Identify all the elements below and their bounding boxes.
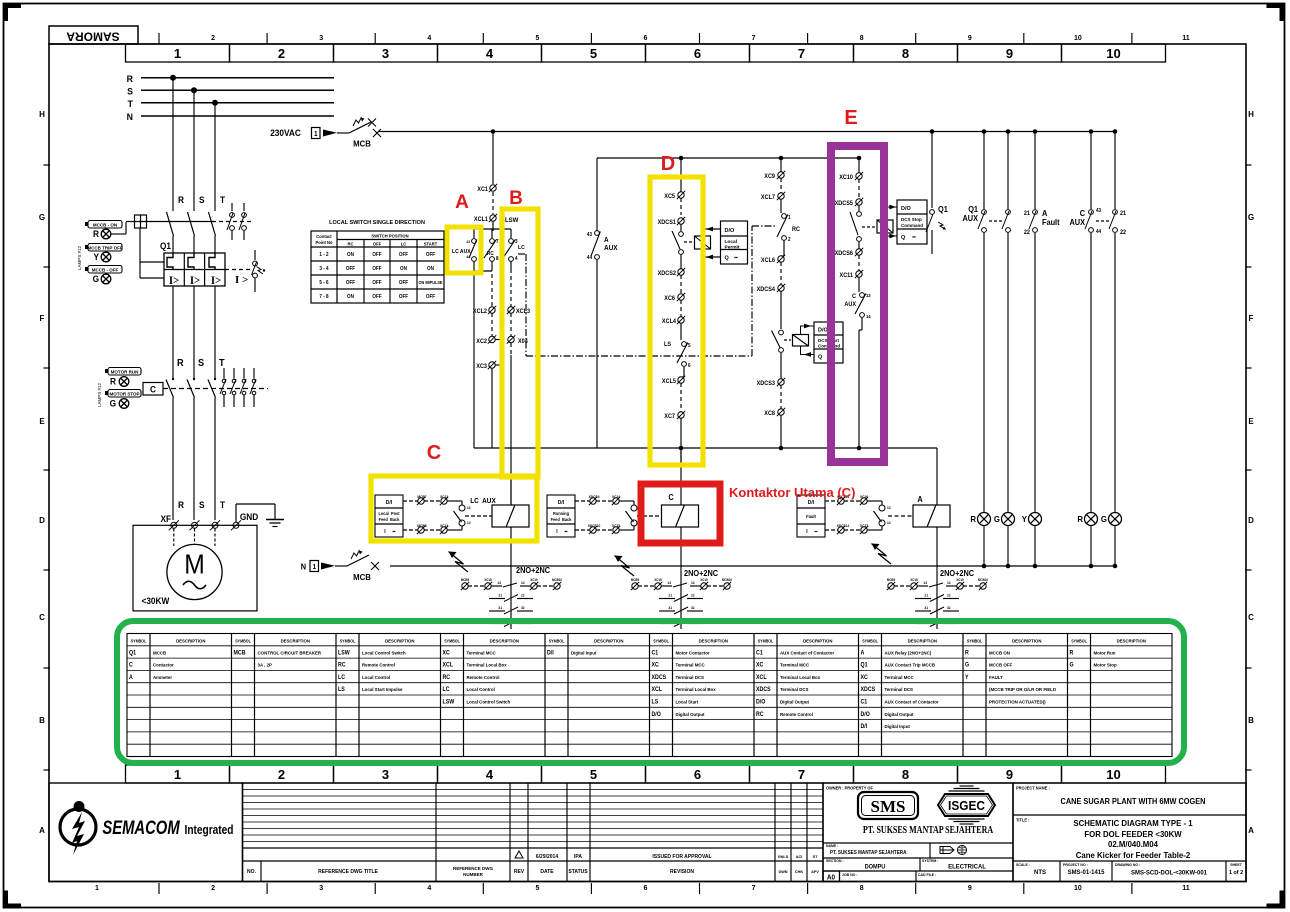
- svg-text:I>: I>: [169, 275, 179, 288]
- svg-text:E: E: [844, 107, 857, 129]
- svg-text:A: A: [1248, 826, 1254, 835]
- svg-text:PT. SUKSES MANTAP SEJAHTERA: PT. SUKSES MANTAP SEJAHTERA: [830, 850, 907, 856]
- svg-text:2NO+2NC: 2NO+2NC: [516, 566, 551, 575]
- svg-text:Local: Local: [725, 239, 738, 245]
- svg-text:D/I: D/I: [808, 500, 815, 506]
- svg-text:T: T: [220, 500, 226, 510]
- svg-text:6: 6: [694, 46, 701, 61]
- svg-text:Terminal MCC: Terminal MCC: [780, 663, 810, 668]
- svg-text:A: A: [39, 826, 45, 835]
- svg-text:S: S: [198, 358, 205, 369]
- svg-text:Digital Output: Digital Output: [885, 712, 915, 717]
- svg-text:B: B: [509, 188, 523, 209]
- svg-text:MCCB: MCCB: [153, 650, 166, 655]
- svg-text:XC8: XC8: [764, 411, 775, 417]
- svg-text:LSW: LSW: [505, 217, 518, 224]
- svg-text:DESCRIPTION: DESCRIPTION: [803, 639, 832, 644]
- svg-text:OFF: OFF: [399, 294, 408, 300]
- svg-text:STATUS: STATUS: [568, 869, 588, 875]
- svg-text:SMS-01-1415: SMS-01-1415: [1068, 869, 1105, 876]
- svg-text:MCCB OFF: MCCB OFF: [989, 663, 1012, 668]
- svg-text:Local Start Impulse: Local Start Impulse: [362, 687, 403, 692]
- svg-text:NO.: NO.: [247, 869, 257, 875]
- svg-text:DESCRIPTION: DESCRIPTION: [908, 639, 937, 644]
- svg-text:DESCRIPTION: DESCRIPTION: [490, 639, 519, 644]
- svg-text:D/O: D/O: [725, 228, 736, 234]
- svg-text:9: 9: [1006, 46, 1013, 61]
- svg-text:N: N: [301, 562, 307, 571]
- svg-text:SEMACOM: SEMACOM: [102, 817, 180, 838]
- svg-text:I >: I >: [235, 274, 248, 286]
- svg-text:Local Control Switch: Local Control Switch: [467, 700, 511, 705]
- svg-text:1 of 2: 1 of 2: [1229, 870, 1243, 876]
- svg-text:SWITCH POSITION: SWITCH POSITION: [371, 233, 408, 238]
- svg-text:ON: ON: [427, 266, 434, 272]
- svg-text:XCL: XCL: [652, 687, 663, 693]
- svg-text:SYMBOL: SYMBOL: [1071, 638, 1087, 643]
- svg-text:21: 21: [668, 593, 672, 597]
- svg-text:Local Control: Local Control: [467, 687, 495, 692]
- svg-text:S: S: [127, 86, 133, 96]
- svg-text:Remote Control: Remote Control: [362, 663, 395, 668]
- svg-text:XC3: XC3: [476, 364, 487, 370]
- svg-text:Fault: Fault: [806, 514, 816, 519]
- svg-text:8: 8: [860, 885, 864, 892]
- svg-text:LSW: LSW: [338, 650, 350, 656]
- svg-text:S: S: [199, 500, 205, 510]
- svg-text:T: T: [220, 195, 226, 205]
- svg-text:Fault: Fault: [1042, 218, 1060, 227]
- svg-text:IPA: IPA: [574, 854, 582, 860]
- svg-text:APV: APV: [811, 870, 819, 874]
- svg-text:02.M/040.M04: 02.M/040.M04: [1108, 840, 1158, 849]
- svg-text:1: 1: [174, 46, 181, 61]
- svg-text:LS: LS: [664, 342, 671, 348]
- svg-text:OFF: OFF: [399, 252, 408, 258]
- svg-text:T: T: [128, 98, 134, 108]
- svg-text:7: 7: [752, 885, 756, 892]
- svg-text:XC19: XC19: [700, 578, 708, 582]
- svg-text:E: E: [39, 417, 45, 426]
- svg-text:⎓: ⎓: [393, 530, 397, 534]
- svg-text:G: G: [965, 662, 970, 668]
- svg-text:Local Post: Local Post: [378, 511, 400, 516]
- svg-text:R: R: [178, 500, 185, 510]
- svg-text:PROJECT NAME :: PROJECT NAME :: [1016, 785, 1050, 790]
- svg-text:XC10: XC10: [839, 175, 853, 181]
- svg-text:Feed Back: Feed Back: [551, 517, 573, 522]
- svg-text:22: 22: [691, 593, 695, 597]
- svg-text:MCB: MCB: [234, 650, 246, 656]
- svg-text:TITLE :: TITLE :: [1016, 817, 1029, 822]
- svg-text:5: 5: [535, 35, 539, 42]
- svg-text:LS: LS: [338, 687, 345, 693]
- svg-text:XCL4: XCL4: [662, 319, 677, 325]
- svg-text:XC9: XC9: [764, 174, 775, 180]
- svg-text:DESCRIPTION: DESCRIPTION: [1117, 639, 1146, 644]
- svg-text:MCCB - OFF: MCCB - OFF: [92, 268, 119, 273]
- svg-text:Digital Output: Digital Output: [676, 712, 706, 717]
- svg-text:XC: XC: [443, 650, 450, 656]
- svg-text:Contact: Contact: [316, 234, 332, 239]
- svg-text:D/I: D/I: [861, 724, 868, 730]
- svg-text:LC AUX: LC AUX: [452, 249, 471, 255]
- svg-text:31: 31: [924, 606, 928, 610]
- svg-text:7: 7: [496, 239, 499, 245]
- svg-text:1: 1: [313, 564, 317, 571]
- svg-text:XC18: XC18: [910, 578, 918, 582]
- svg-text:XDCS: XDCS: [861, 687, 876, 693]
- svg-text:SAMORA: SAMORA: [66, 30, 120, 44]
- svg-text:SYMBOL: SYMBOL: [653, 638, 669, 643]
- svg-text:RC: RC: [792, 227, 800, 233]
- svg-text:7: 7: [752, 35, 756, 42]
- svg-text:LS: LS: [652, 699, 659, 705]
- svg-text:2NO+2NC: 2NO+2NC: [684, 569, 719, 578]
- svg-text:Motor Run: Motor Run: [1094, 650, 1116, 655]
- svg-text:LC: LC: [443, 687, 450, 693]
- svg-text:4: 4: [486, 767, 494, 782]
- svg-text:RC: RC: [756, 711, 764, 717]
- svg-text:AUX Contact Trip MCCB: AUX Contact Trip MCCB: [885, 663, 936, 668]
- svg-text:AUX: AUX: [604, 245, 618, 252]
- svg-text:E: E: [1248, 417, 1254, 426]
- svg-text:PROJECT NO :: PROJECT NO :: [1063, 863, 1088, 867]
- svg-text:⎓: ⎓: [565, 530, 569, 534]
- svg-text:14: 14: [691, 581, 695, 585]
- svg-text:C: C: [1080, 209, 1086, 218]
- svg-text:1: 1: [788, 215, 791, 221]
- svg-text:SYMBOL: SYMBOL: [340, 638, 356, 643]
- svg-text:3: 3: [319, 885, 323, 892]
- svg-text:C1: C1: [756, 650, 763, 656]
- svg-text:MCB8: MCB8: [417, 524, 426, 528]
- svg-text:Y: Y: [1022, 515, 1028, 524]
- svg-text:3A , 2P: 3A , 2P: [258, 663, 273, 668]
- svg-text:XDCS2: XDCS2: [658, 271, 676, 277]
- svg-text:MOTOR RUN: MOTOR RUN: [111, 370, 139, 375]
- svg-text:Terminal MCC: Terminal MCC: [467, 650, 497, 655]
- svg-text:NAME :: NAME :: [826, 844, 838, 848]
- svg-text:ELECTRICAL: ELECTRICAL: [948, 863, 986, 870]
- svg-text:5: 5: [590, 767, 597, 782]
- svg-text:XDCS6: XDCS6: [835, 251, 853, 257]
- svg-text:⎓: ⎓: [912, 234, 916, 239]
- svg-text:G: G: [110, 398, 117, 408]
- svg-text:5: 5: [590, 46, 597, 61]
- svg-text:A: A: [1042, 209, 1048, 218]
- svg-text:R: R: [970, 515, 976, 524]
- svg-text:NUMBER: NUMBER: [463, 872, 483, 877]
- svg-text:N: N: [127, 112, 133, 122]
- svg-text:1: 1: [314, 131, 318, 138]
- svg-text:R: R: [178, 195, 185, 205]
- svg-text:6: 6: [688, 363, 691, 369]
- svg-text:9: 9: [1006, 767, 1013, 782]
- svg-text:C: C: [150, 384, 156, 394]
- svg-text:ACI: ACI: [796, 855, 803, 859]
- svg-text:Terminal Local Box: Terminal Local Box: [676, 687, 717, 692]
- svg-text:3: 3: [382, 46, 389, 61]
- svg-text:AUX: AUX: [844, 302, 856, 308]
- svg-text:ON: ON: [347, 294, 354, 300]
- svg-text:XDCS12: XDCS12: [837, 524, 850, 528]
- svg-text:5: 5: [688, 343, 691, 349]
- svg-text:Terminal DCS: Terminal DCS: [885, 687, 914, 692]
- svg-text:XC2: XC2: [476, 339, 487, 345]
- svg-text:R: R: [1077, 515, 1083, 524]
- svg-text:F: F: [40, 314, 45, 323]
- svg-text:XC13: XC13: [440, 524, 448, 528]
- svg-text:MCB9: MCB9: [887, 578, 896, 582]
- svg-text:32: 32: [691, 606, 695, 610]
- svg-text:OFF: OFF: [399, 280, 408, 286]
- svg-text:2: 2: [211, 885, 215, 892]
- svg-text:C: C: [668, 493, 674, 502]
- svg-text:DOMPU: DOMPU: [865, 864, 885, 870]
- svg-text:DRAWING NO :: DRAWING NO :: [1115, 863, 1140, 867]
- svg-text:Local Control: Local Control: [362, 675, 390, 680]
- svg-text:FAULT: FAULT: [989, 675, 1003, 680]
- svg-text:RC: RC: [338, 662, 346, 668]
- svg-text:XC19: XC19: [956, 578, 964, 582]
- svg-text:ISSUED FOR APPROVAL: ISSUED FOR APPROVAL: [652, 854, 711, 860]
- svg-text:XC7: XC7: [664, 414, 675, 420]
- svg-text:G: G: [93, 274, 100, 284]
- svg-text:4: 4: [515, 256, 518, 262]
- svg-text:14: 14: [887, 521, 891, 525]
- svg-text:DESCRIPTION: DESCRIPTION: [1012, 639, 1041, 644]
- svg-text:OFF: OFF: [372, 266, 381, 272]
- svg-text:R: R: [93, 229, 100, 239]
- svg-text:2: 2: [278, 46, 285, 61]
- svg-text:ON IMPULSE: ON IMPULSE: [419, 280, 443, 285]
- svg-text:Q1: Q1: [938, 205, 949, 214]
- svg-text:XDCS: XDCS: [652, 675, 667, 681]
- svg-text:REFERENCE DWG: REFERENCE DWG: [453, 866, 494, 871]
- svg-text:3: 3: [382, 767, 389, 782]
- svg-text:5 - 6: 5 - 6: [319, 280, 329, 286]
- svg-text:START: START: [424, 241, 438, 246]
- svg-text:LC: LC: [401, 241, 407, 246]
- svg-text:LC: LC: [518, 245, 525, 251]
- svg-text:SYMBOL: SYMBOL: [862, 638, 878, 643]
- svg-text:SHEET: SHEET: [1230, 863, 1242, 867]
- svg-text:AUX Relay (2NO+2NC): AUX Relay (2NO+2NC): [885, 650, 932, 655]
- svg-text:XDCS4: XDCS4: [757, 287, 776, 293]
- svg-text:I: I: [806, 529, 808, 535]
- svg-text:Integrated: Integrated: [185, 823, 234, 837]
- svg-text:8: 8: [902, 767, 909, 782]
- svg-text:OFF: OFF: [426, 252, 435, 258]
- svg-text:XCL3: XCL3: [516, 309, 530, 315]
- svg-text:Cane Kicker for Feeder Table-2: Cane Kicker for Feeder Table-2: [1076, 851, 1191, 860]
- svg-text:D: D: [661, 153, 675, 175]
- svg-text:6/29/2014: 6/29/2014: [536, 854, 558, 860]
- svg-text:22: 22: [947, 593, 951, 597]
- svg-text:X04: X04: [518, 339, 529, 345]
- svg-text:SYMBOL: SYMBOL: [967, 638, 983, 643]
- svg-text:14: 14: [521, 581, 525, 585]
- svg-text:R: R: [965, 650, 970, 656]
- svg-text:2: 2: [788, 237, 791, 243]
- svg-text:4: 4: [427, 35, 431, 42]
- svg-text:SMS: SMS: [871, 797, 906, 816]
- svg-text:AUX: AUX: [1069, 218, 1085, 227]
- svg-text:CANE SUGAR PLANT WITH 6MW COGE: CANE SUGAR PLANT WITH 6MW COGEN: [1061, 797, 1206, 806]
- svg-text:21: 21: [924, 593, 928, 597]
- svg-text:MCB9: MCB9: [461, 578, 470, 582]
- svg-text:43: 43: [466, 240, 470, 244]
- svg-text:1: 1: [174, 767, 181, 782]
- svg-text:SYMBOL: SYMBOL: [758, 638, 774, 643]
- svg-text:A: A: [129, 675, 133, 681]
- svg-text:230VAC: 230VAC: [270, 128, 301, 138]
- svg-text:2NO+2NC: 2NO+2NC: [940, 569, 975, 578]
- svg-text:1 - 2: 1 - 2: [319, 252, 329, 258]
- svg-text:OFF: OFF: [372, 252, 381, 258]
- svg-text:D: D: [1248, 516, 1254, 525]
- svg-text:Feed Back: Feed Back: [379, 517, 401, 522]
- svg-text:D/O: D/O: [861, 711, 871, 717]
- svg-text:13: 13: [887, 506, 891, 510]
- svg-text:XF: XF: [160, 514, 171, 524]
- svg-text:SYMBOL: SYMBOL: [444, 638, 460, 643]
- svg-text:XC18: XC18: [654, 578, 662, 582]
- svg-text:Point No: Point No: [316, 240, 333, 245]
- svg-text:11: 11: [1182, 885, 1190, 892]
- svg-text:XDCS10: XDCS10: [588, 524, 601, 528]
- svg-text:C: C: [1248, 613, 1254, 622]
- svg-text:32: 32: [521, 606, 525, 610]
- svg-text:ISGEC: ISGEC: [948, 799, 985, 813]
- svg-text:PROTECTION ACTUATED)): PROTECTION ACTUATED)): [989, 700, 1046, 705]
- svg-text:DESCRIPTION: DESCRIPTION: [594, 639, 623, 644]
- svg-text:XCL: XCL: [756, 675, 767, 681]
- svg-text:21: 21: [498, 593, 502, 597]
- svg-text:RC: RC: [443, 675, 451, 681]
- svg-text:D/O: D/O: [818, 328, 829, 334]
- svg-text:MCB10: MCB10: [722, 578, 732, 582]
- svg-text:XDCS1: XDCS1: [658, 220, 677, 226]
- svg-text:CAD FILE :: CAD FILE :: [918, 873, 936, 877]
- svg-text:22: 22: [1120, 230, 1126, 236]
- svg-text:7 - 8: 7 - 8: [319, 294, 329, 300]
- svg-text:XC18: XC18: [484, 578, 492, 582]
- svg-text:XC: XC: [652, 662, 659, 668]
- svg-text:MCB10: MCB10: [552, 578, 562, 582]
- svg-text:14: 14: [866, 314, 871, 319]
- svg-text:Q: Q: [818, 355, 823, 361]
- svg-text:XCL6: XCL6: [761, 258, 775, 264]
- svg-text:GND: GND: [240, 512, 258, 522]
- svg-text:10: 10: [1106, 46, 1120, 61]
- svg-text:D/I: D/I: [386, 500, 393, 506]
- svg-text:LC: LC: [338, 675, 345, 681]
- svg-text:<30KW: <30KW: [142, 596, 171, 606]
- svg-text:A: A: [455, 192, 469, 213]
- svg-text:I>: I>: [211, 275, 221, 288]
- svg-text:Y: Y: [965, 675, 969, 681]
- svg-text:D/O: D/O: [756, 699, 766, 705]
- svg-text:14: 14: [467, 521, 471, 525]
- svg-text:MCCB TRIP OFF: MCCB TRIP OFF: [87, 246, 122, 251]
- svg-text:DESCRIPTION: DESCRIPTION: [385, 639, 414, 644]
- svg-text:XC6: XC6: [664, 296, 675, 302]
- svg-text:9: 9: [968, 885, 972, 892]
- svg-text:XCL1: XCL1: [474, 217, 489, 223]
- svg-text:9: 9: [968, 35, 972, 42]
- svg-text:Motor Stop: Motor Stop: [1094, 663, 1117, 668]
- svg-text:MCB10: MCB10: [978, 578, 988, 582]
- svg-text:S: S: [199, 195, 205, 205]
- svg-text:5: 5: [535, 885, 539, 892]
- svg-text:D/I: D/I: [558, 500, 565, 506]
- svg-text:13: 13: [467, 506, 471, 510]
- svg-text:REVISION: REVISION: [670, 869, 694, 875]
- svg-text:XC11: XC11: [840, 273, 854, 279]
- svg-text:SECTION :: SECTION :: [826, 859, 844, 863]
- svg-text:SYMBOL: SYMBOL: [549, 638, 565, 643]
- svg-text:ST: ST: [813, 855, 819, 859]
- svg-text:RC: RC: [487, 251, 494, 257]
- svg-text:14: 14: [947, 581, 951, 585]
- svg-text:RC: RC: [348, 241, 354, 246]
- svg-text:LSW: LSW: [443, 699, 455, 705]
- svg-text:8: 8: [902, 46, 909, 61]
- svg-text:SYMBOL: SYMBOL: [235, 638, 251, 643]
- svg-text:JOB NO :: JOB NO :: [842, 873, 857, 877]
- svg-text:D/O: D/O: [652, 711, 662, 717]
- svg-text:Digital Output: Digital Output: [780, 700, 810, 705]
- svg-text:G: G: [994, 515, 1000, 524]
- svg-text:21: 21: [1120, 211, 1127, 217]
- svg-text:Y: Y: [93, 252, 99, 262]
- svg-text:7: 7: [798, 46, 805, 61]
- svg-text:C: C: [129, 662, 133, 668]
- svg-text:ON: ON: [347, 252, 354, 258]
- svg-text:M: M: [184, 548, 205, 580]
- svg-text:13: 13: [497, 581, 501, 585]
- svg-text:AUX Contact of Contactor: AUX Contact of Contactor: [780, 650, 834, 655]
- svg-text:Terminal Local Box: Terminal Local Box: [780, 675, 821, 680]
- svg-text:DWN: DWN: [778, 870, 787, 874]
- svg-text:XDCS: XDCS: [756, 687, 771, 693]
- svg-text:T: T: [219, 358, 225, 369]
- svg-text:MCCB ON: MCCB ON: [989, 650, 1010, 655]
- svg-text:NTS: NTS: [1034, 869, 1046, 876]
- svg-text:FOR DOL FEEDER <30KW: FOR DOL FEEDER <30KW: [1084, 830, 1182, 839]
- svg-text:I>: I>: [190, 275, 200, 288]
- svg-text:LOCAL SWITCH SINGLE DIRECTION: LOCAL SWITCH SINGLE DIRECTION: [329, 220, 425, 226]
- svg-text:C: C: [427, 442, 441, 464]
- svg-text:XC15: XC15: [612, 524, 620, 528]
- svg-text:SYMBOL: SYMBOL: [131, 638, 147, 643]
- svg-text:Local Start: Local Start: [676, 700, 699, 705]
- svg-text:22: 22: [521, 593, 525, 597]
- svg-text:⎓: ⎓: [815, 530, 819, 534]
- svg-text:10: 10: [1074, 885, 1082, 892]
- svg-text:R: R: [127, 73, 134, 83]
- svg-text:SCALE :: SCALE :: [1016, 863, 1030, 867]
- svg-text:1: 1: [95, 885, 99, 892]
- svg-text:R: R: [110, 376, 117, 386]
- svg-text:43: 43: [587, 232, 592, 238]
- svg-text:MCB: MCB: [353, 573, 371, 582]
- svg-text:CONTROL CIRCUIT BREAKER: CONTROL CIRCUIT BREAKER: [258, 650, 322, 655]
- svg-text:DESCRIPTION: DESCRIPTION: [699, 639, 728, 644]
- svg-text:Command: Command: [901, 223, 923, 228]
